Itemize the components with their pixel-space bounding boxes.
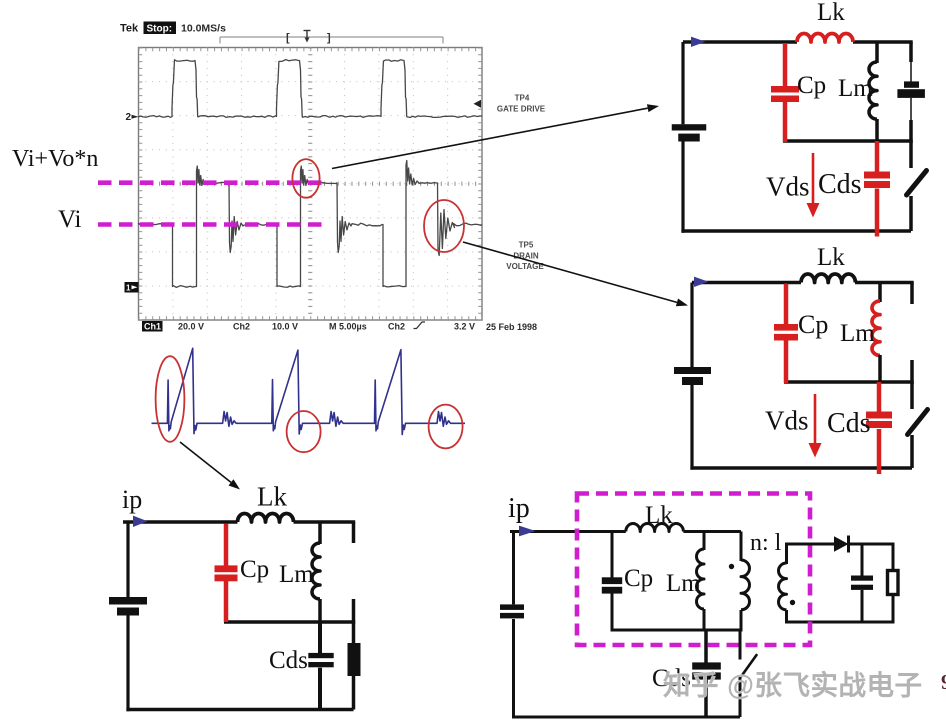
svg-text:Stop:: Stop: [147, 24, 173, 35]
svg-text:Cp: Cp [797, 72, 826, 99]
svg-text:ip: ip [508, 493, 530, 524]
svg-text:Lk: Lk [817, 0, 845, 26]
svg-text:9: 9 [941, 670, 946, 694]
svg-text:知乎 @张飞实战电子: 知乎 @张飞实战电子 [663, 670, 922, 701]
svg-text:Vds: Vds [765, 406, 809, 436]
svg-text:25 Feb 1998: 25 Feb 1998 [486, 322, 537, 332]
svg-text:Lm: Lm [279, 561, 314, 588]
svg-text:Ch2: Ch2 [233, 322, 250, 332]
svg-text:GATE DRIVE: GATE DRIVE [497, 105, 546, 114]
svg-text:2: 2 [126, 112, 132, 123]
svg-text:Cp: Cp [624, 565, 653, 592]
svg-text:Vds: Vds [766, 172, 810, 202]
svg-text:Vi: Vi [58, 206, 82, 233]
svg-text:10.0MS/s: 10.0MS/s [181, 23, 226, 35]
svg-text:Ch1: Ch1 [144, 322, 161, 332]
svg-text:Lk: Lk [257, 482, 287, 512]
svg-text:20.0 V: 20.0 V [178, 322, 204, 332]
svg-text:Cp: Cp [240, 556, 269, 583]
svg-text:10.0 V: 10.0 V [272, 322, 298, 332]
svg-text:Lk: Lk [817, 244, 845, 271]
svg-text:3.2 V: 3.2 V [454, 322, 475, 332]
svg-text:Cp: Cp [798, 310, 828, 339]
svg-text:[: [ [286, 32, 290, 44]
svg-text:Cds: Cds [269, 647, 308, 674]
svg-text:Cds: Cds [818, 169, 862, 200]
svg-text:Vi+Vo*n: Vi+Vo*n [12, 146, 98, 172]
svg-text:Cds: Cds [827, 408, 871, 439]
svg-text:Lm: Lm [666, 570, 701, 597]
svg-text:Tek: Tek [120, 23, 139, 35]
svg-text:Lk: Lk [645, 502, 673, 529]
svg-text:ip: ip [122, 485, 142, 514]
svg-text:Ch2: Ch2 [388, 322, 405, 332]
svg-text:Lm: Lm [838, 75, 873, 102]
svg-text:M 5.00µs: M 5.00µs [329, 322, 367, 332]
svg-text:TP5: TP5 [519, 241, 534, 250]
svg-text:Lm: Lm [840, 320, 875, 347]
svg-text:n: l: n: l [750, 530, 782, 556]
svg-text:]: ] [327, 32, 331, 44]
svg-text:1: 1 [126, 284, 131, 293]
svg-text:TP4: TP4 [515, 94, 530, 103]
